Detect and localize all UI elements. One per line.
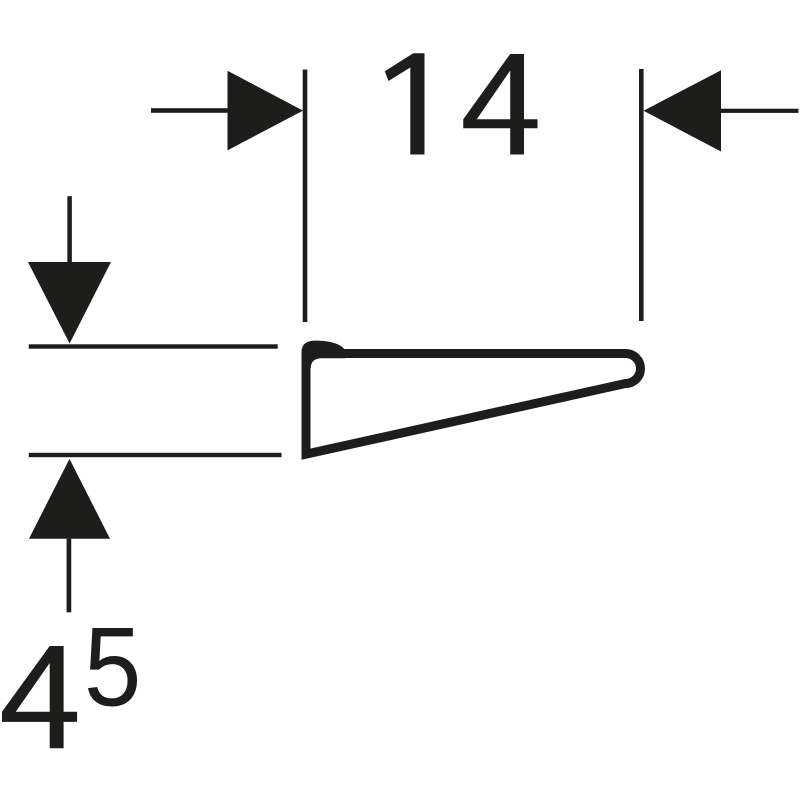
svg-text:5: 5	[84, 604, 141, 730]
